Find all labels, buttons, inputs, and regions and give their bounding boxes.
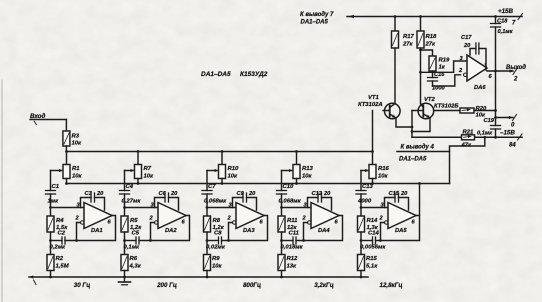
label K vyvodu 4 / DA1-DA5 <box>399 145 434 163</box>
svg-text:DA2: DA2 <box>165 228 177 234</box>
svg-text:VT1: VT1 <box>368 95 379 101</box>
wire bus A to pot R10 <box>221 152 223 165</box>
label K vyvodu 7 / DA1-DA5 <box>300 12 334 25</box>
wire pin 2 to feedback <box>229 223 233 241</box>
feedback wire output loop <box>65 216 116 242</box>
svg-text:10к: 10к <box>72 141 83 147</box>
wire to ground bus <box>360 271 362 278</box>
wire R21 tap to bus B <box>450 137 485 183</box>
capacitor C18 0.1uF <box>491 17 514 36</box>
svg-text:С12: С12 <box>312 191 323 197</box>
svg-text:С19: С19 <box>484 118 495 124</box>
wire VT1 emitter to VT2 base <box>396 118 414 129</box>
svg-text:10к: 10к <box>302 174 313 180</box>
svg-text:30 Гц: 30 Гц <box>74 282 90 289</box>
svg-text:С14: С14 <box>368 231 380 237</box>
feedback wire output loop <box>296 216 343 242</box>
svg-text:4,3к: 4,3к <box>129 264 142 270</box>
svg-text:0,0056мк: 0,0056мк <box>360 245 386 251</box>
svg-text:R21: R21 <box>463 130 474 136</box>
svg-text:К выводу 4: К выводу 4 <box>401 145 435 151</box>
svg-text:R16: R16 <box>378 166 390 172</box>
svg-text:R5: R5 <box>130 218 138 224</box>
DA6 inverting bubble <box>464 73 467 76</box>
svg-text:0,1мк: 0,1мк <box>498 29 514 35</box>
svg-text:R18: R18 <box>426 34 438 40</box>
correction capacitor С3 20 <box>81 191 105 210</box>
svg-text:4000: 4000 <box>357 199 372 205</box>
wire pin 2 to feedback <box>304 223 308 241</box>
resistor R11 12к <box>278 216 298 232</box>
op-amp DA4 <box>302 203 340 235</box>
wire cap to resistor <box>123 194 126 216</box>
output wire <box>487 70 513 72</box>
svg-text:С10: С10 <box>283 184 295 190</box>
wire chain to op-amp pin 3 <box>361 207 388 209</box>
svg-text:R4: R4 <box>56 218 64 224</box>
svg-text:27к: 27к <box>425 42 437 48</box>
svg-text:R12: R12 <box>287 256 299 262</box>
svg-text:R9: R9 <box>212 256 220 262</box>
svg-text:R1: R1 <box>72 166 80 172</box>
wire VT2 base column <box>411 111 413 138</box>
svg-text:13к: 13к <box>287 264 298 270</box>
svg-text:R8: R8 <box>213 218 221 224</box>
wire wiper down <box>360 171 362 191</box>
inverting input bubble <box>308 221 311 224</box>
svg-text:С2: С2 <box>58 231 66 237</box>
VT1 label <box>358 95 383 108</box>
wire wiper down <box>124 171 126 191</box>
svg-text:R14: R14 <box>367 218 379 224</box>
svg-text:+15В: +15В <box>498 8 513 15</box>
svg-text:С11: С11 <box>289 231 299 237</box>
wire VT1 base riser <box>372 111 374 152</box>
resistor R5 1,2к <box>121 216 142 232</box>
inverting input bubble <box>81 221 84 224</box>
svg-text:1,5М: 1,5М <box>56 264 70 270</box>
resistor R6 4,3к <box>121 255 142 271</box>
capacitor С8 0,02мк <box>206 231 226 251</box>
resistor R8 1,2к <box>204 216 225 232</box>
scan edge artifact <box>1 80 3 302</box>
correction capacitor С9 20 <box>233 191 257 210</box>
pot wiper arrow <box>361 169 369 172</box>
svg-text:–15В: –15В <box>500 130 515 137</box>
wire R17 to VT1 collector <box>394 48 396 104</box>
svg-text:10к: 10к <box>72 174 83 180</box>
resistor R20 10k <box>434 106 487 119</box>
wire bus A to pot R7 <box>137 152 139 165</box>
wire wiper down <box>206 171 208 191</box>
wire to ground bus <box>50 271 52 278</box>
svg-text:DA4: DA4 <box>318 228 330 234</box>
wire R3 to bus A <box>65 146 67 152</box>
svg-text:R19: R19 <box>439 58 451 64</box>
wire chain to op-amp pin 3 <box>125 207 159 209</box>
svg-text:10к: 10к <box>228 174 239 180</box>
wire bus A to pot R13 <box>296 152 298 165</box>
svg-text:R6: R6 <box>130 256 138 262</box>
0 terminal <box>496 115 517 129</box>
op-amp DA5 <box>379 203 417 235</box>
svg-text:R3: R3 <box>72 134 80 140</box>
wire VT2 emitter <box>411 118 430 133</box>
svg-text:10к: 10к <box>144 174 155 180</box>
capacitor С1 1мк <box>46 184 60 205</box>
svg-text:2: 2 <box>513 77 518 83</box>
wire pot bottom to bus B <box>137 179 139 184</box>
capacitor C19 <box>477 118 501 137</box>
capacitor С14 0,0056мк <box>360 231 386 251</box>
svg-text:КТ3102А: КТ3102А <box>358 102 383 108</box>
transistor VT2 KT3102B <box>412 103 434 119</box>
wire cap to resistor <box>280 194 283 216</box>
pot wiper arrow <box>51 169 63 172</box>
wire to ground bus <box>206 271 208 278</box>
resistor R2 1,5М <box>47 255 70 271</box>
svg-text:12,8кГц: 12,8кГц <box>380 282 403 289</box>
resistor R19 1k <box>421 50 451 71</box>
svg-text:DA6: DA6 <box>474 85 486 91</box>
resistor R4 1,5к <box>47 216 68 232</box>
resistor R14 1,3к <box>358 216 379 232</box>
svg-text:800Гц: 800Гц <box>243 282 261 289</box>
op-amp DA1 <box>75 203 113 235</box>
ground bus <box>29 275 368 284</box>
capacitor C16 1000 <box>428 71 446 92</box>
resistor R17 27k <box>392 17 415 49</box>
wire K vyvodu 4 rail <box>397 151 450 153</box>
svg-text:DA1: DA1 <box>91 228 103 234</box>
pot wiper arrow <box>207 169 218 172</box>
svg-text:DA5: DA5 <box>395 228 407 234</box>
wire cap to resistor <box>360 194 363 216</box>
feedback wire output loop <box>376 216 420 242</box>
svg-text:0,02мк: 0,02мк <box>206 245 226 251</box>
wire cap to resistor <box>49 194 52 216</box>
op-amp DA6 <box>458 55 493 91</box>
+15V bus with arrow <box>347 15 522 18</box>
wire chain to op-amp pin 3 <box>282 207 312 209</box>
svg-text:20: 20 <box>248 191 256 197</box>
wire R18 to VT2 collector <box>419 48 422 104</box>
svg-text:20: 20 <box>96 191 104 197</box>
svg-text:С18: С18 <box>497 19 508 25</box>
wire to ground bus <box>124 271 126 278</box>
resistor R15 5,1к <box>358 255 379 271</box>
correction capacitor С12 20 <box>308 191 332 210</box>
svg-text:0,018мк: 0,018мк <box>281 245 304 251</box>
wire wiper down <box>50 171 52 191</box>
svg-text:20: 20 <box>323 191 331 197</box>
resistor R3 <box>63 131 82 147</box>
VT2 label <box>424 97 459 110</box>
-15V terminal <box>500 130 522 149</box>
resistor R18 27k <box>417 17 437 49</box>
capacitor С4 0,27мк <box>120 184 142 205</box>
wire pin 2 to feedback <box>77 223 81 241</box>
svg-text:10к: 10к <box>212 264 223 270</box>
ground symbol <box>119 277 131 285</box>
wire down to lower resistor <box>123 232 126 255</box>
resistor R12 13к <box>278 255 298 271</box>
potentiometer R1 <box>63 165 83 180</box>
wire chain to op-amp pin 3 <box>207 207 236 209</box>
svg-text:20: 20 <box>400 191 408 197</box>
-15V rail <box>412 136 522 139</box>
svg-text:DA1–DA5: DA1–DA5 <box>201 71 231 78</box>
svg-text:200 Гц: 200 Гц <box>156 282 177 289</box>
svg-text:10к: 10к <box>378 174 389 180</box>
op-amp DA3 <box>227 203 265 235</box>
svg-text:К153УД2: К153УД2 <box>240 71 268 78</box>
capacitor С5 0,1мк <box>124 231 141 251</box>
wire wiper down <box>281 171 283 191</box>
correction capacitor C17 20 <box>461 35 486 70</box>
svg-text:1мк: 1мк <box>48 199 60 205</box>
svg-text:VT2: VT2 <box>424 97 436 103</box>
svg-text:С3: С3 <box>85 191 93 197</box>
resistor R9 10к <box>204 255 223 271</box>
wire C16 to DA6 pin 2 <box>433 75 461 86</box>
svg-text:84: 84 <box>509 143 516 149</box>
svg-text:0,2мк: 0,2мк <box>50 245 67 251</box>
correction capacitor С6 20 <box>155 191 179 210</box>
svg-text:R13: R13 <box>302 166 314 172</box>
wire bus A to pot R16 <box>372 152 374 165</box>
svg-text:3,2кГц: 3,2кГц <box>314 282 334 289</box>
svg-text:С5: С5 <box>132 231 140 237</box>
wire pot bottom to bus B <box>296 179 298 184</box>
pot wiper arrow <box>125 169 135 172</box>
svg-text:С8: С8 <box>214 231 222 237</box>
svg-text:R2: R2 <box>56 256 64 262</box>
svg-text:R11: R11 <box>287 218 297 224</box>
wire pot bottom to bus B <box>372 179 374 184</box>
svg-text:КТ3102Б: КТ3102Б <box>434 104 459 110</box>
svg-text:R10: R10 <box>228 166 240 172</box>
wire C18 down through output to C19 <box>494 27 497 126</box>
wire R20 to output column <box>474 110 496 112</box>
wire pin 2 to feedback <box>151 223 155 241</box>
+15V terminal <box>498 8 523 27</box>
svg-text:1к: 1к <box>439 65 446 71</box>
wire pin 2 to feedback <box>381 223 385 241</box>
svg-text:5,1к: 5,1к <box>366 264 378 270</box>
bus B (pot bottoms / feedback) <box>65 182 449 185</box>
svg-text:27к: 27к <box>402 42 414 48</box>
inverting input bubble <box>385 221 388 224</box>
capacitor С2 0,2мк <box>50 231 67 251</box>
correction capacitor С15 20 <box>385 191 409 210</box>
output terminal Vyhod <box>506 65 526 83</box>
potentiometer R7 <box>135 165 155 180</box>
svg-text:20: 20 <box>170 191 178 197</box>
bus A (to pot tops) <box>65 150 374 153</box>
wire chain to op-amp pin 3 <box>51 207 85 209</box>
svg-text:С7: С7 <box>208 184 216 190</box>
potentiometer R10 <box>219 165 240 180</box>
wire pot bottom to bus B <box>66 179 68 184</box>
inverting input bubble <box>233 221 236 224</box>
resistor R21 47k <box>461 130 475 149</box>
wire bus A to pot R1 <box>66 152 68 165</box>
svg-text:С1: С1 <box>52 184 60 190</box>
wire down to lower resistor <box>49 232 52 255</box>
capacitor С10 0,068мк <box>277 184 302 205</box>
svg-text:С13: С13 <box>362 184 374 190</box>
capacitor С11 0,018мк <box>281 231 304 251</box>
svg-text:С15: С15 <box>389 191 400 197</box>
wire down to lower resistor <box>360 232 363 255</box>
svg-text:DA1–DA5: DA1–DA5 <box>399 157 427 163</box>
svg-text:С4: С4 <box>126 184 134 190</box>
transistor VT1 KT3102A <box>383 103 400 119</box>
wire down to lower resistor <box>206 232 209 255</box>
wire input to R3 <box>65 120 67 132</box>
svg-text:DA3: DA3 <box>243 228 255 234</box>
capacitor С7 0,068мк <box>202 184 227 205</box>
capacitor С13 4000 <box>356 184 374 205</box>
svg-text:R7: R7 <box>144 166 152 172</box>
wire down to lower resistor <box>280 232 283 255</box>
svg-text:С6: С6 <box>159 191 167 197</box>
wire pot bottom to bus B <box>221 179 223 184</box>
stage 5 output riser to bus B <box>419 184 421 216</box>
input terminal Vhod <box>30 113 66 125</box>
title DA1-DA5 K153UD2 <box>201 71 268 78</box>
potentiometer R16 <box>369 165 390 180</box>
svg-text:К выводу 7: К выводу 7 <box>300 12 334 18</box>
svg-text:С17: С17 <box>461 35 472 41</box>
svg-text:R17: R17 <box>403 34 415 40</box>
wire cap to resistor <box>206 194 209 216</box>
wire to ground bus <box>281 271 283 278</box>
op-amp DA2 <box>149 203 187 235</box>
pot wiper arrow <box>282 169 293 172</box>
svg-text:0,1мк: 0,1мк <box>124 245 141 251</box>
feedback wire output loop <box>139 216 190 242</box>
potentiometer R13 <box>293 165 314 180</box>
inverting input bubble <box>155 221 158 224</box>
svg-text:DA1–DA5: DA1–DA5 <box>301 20 329 26</box>
wire VT2 collector to DA6 pin 3 <box>421 61 468 72</box>
svg-text:0,1мк: 0,1мк <box>477 131 493 137</box>
feedback wire output loop <box>222 216 268 242</box>
svg-text:R15: R15 <box>366 256 378 262</box>
svg-text:С9: С9 <box>237 191 245 197</box>
